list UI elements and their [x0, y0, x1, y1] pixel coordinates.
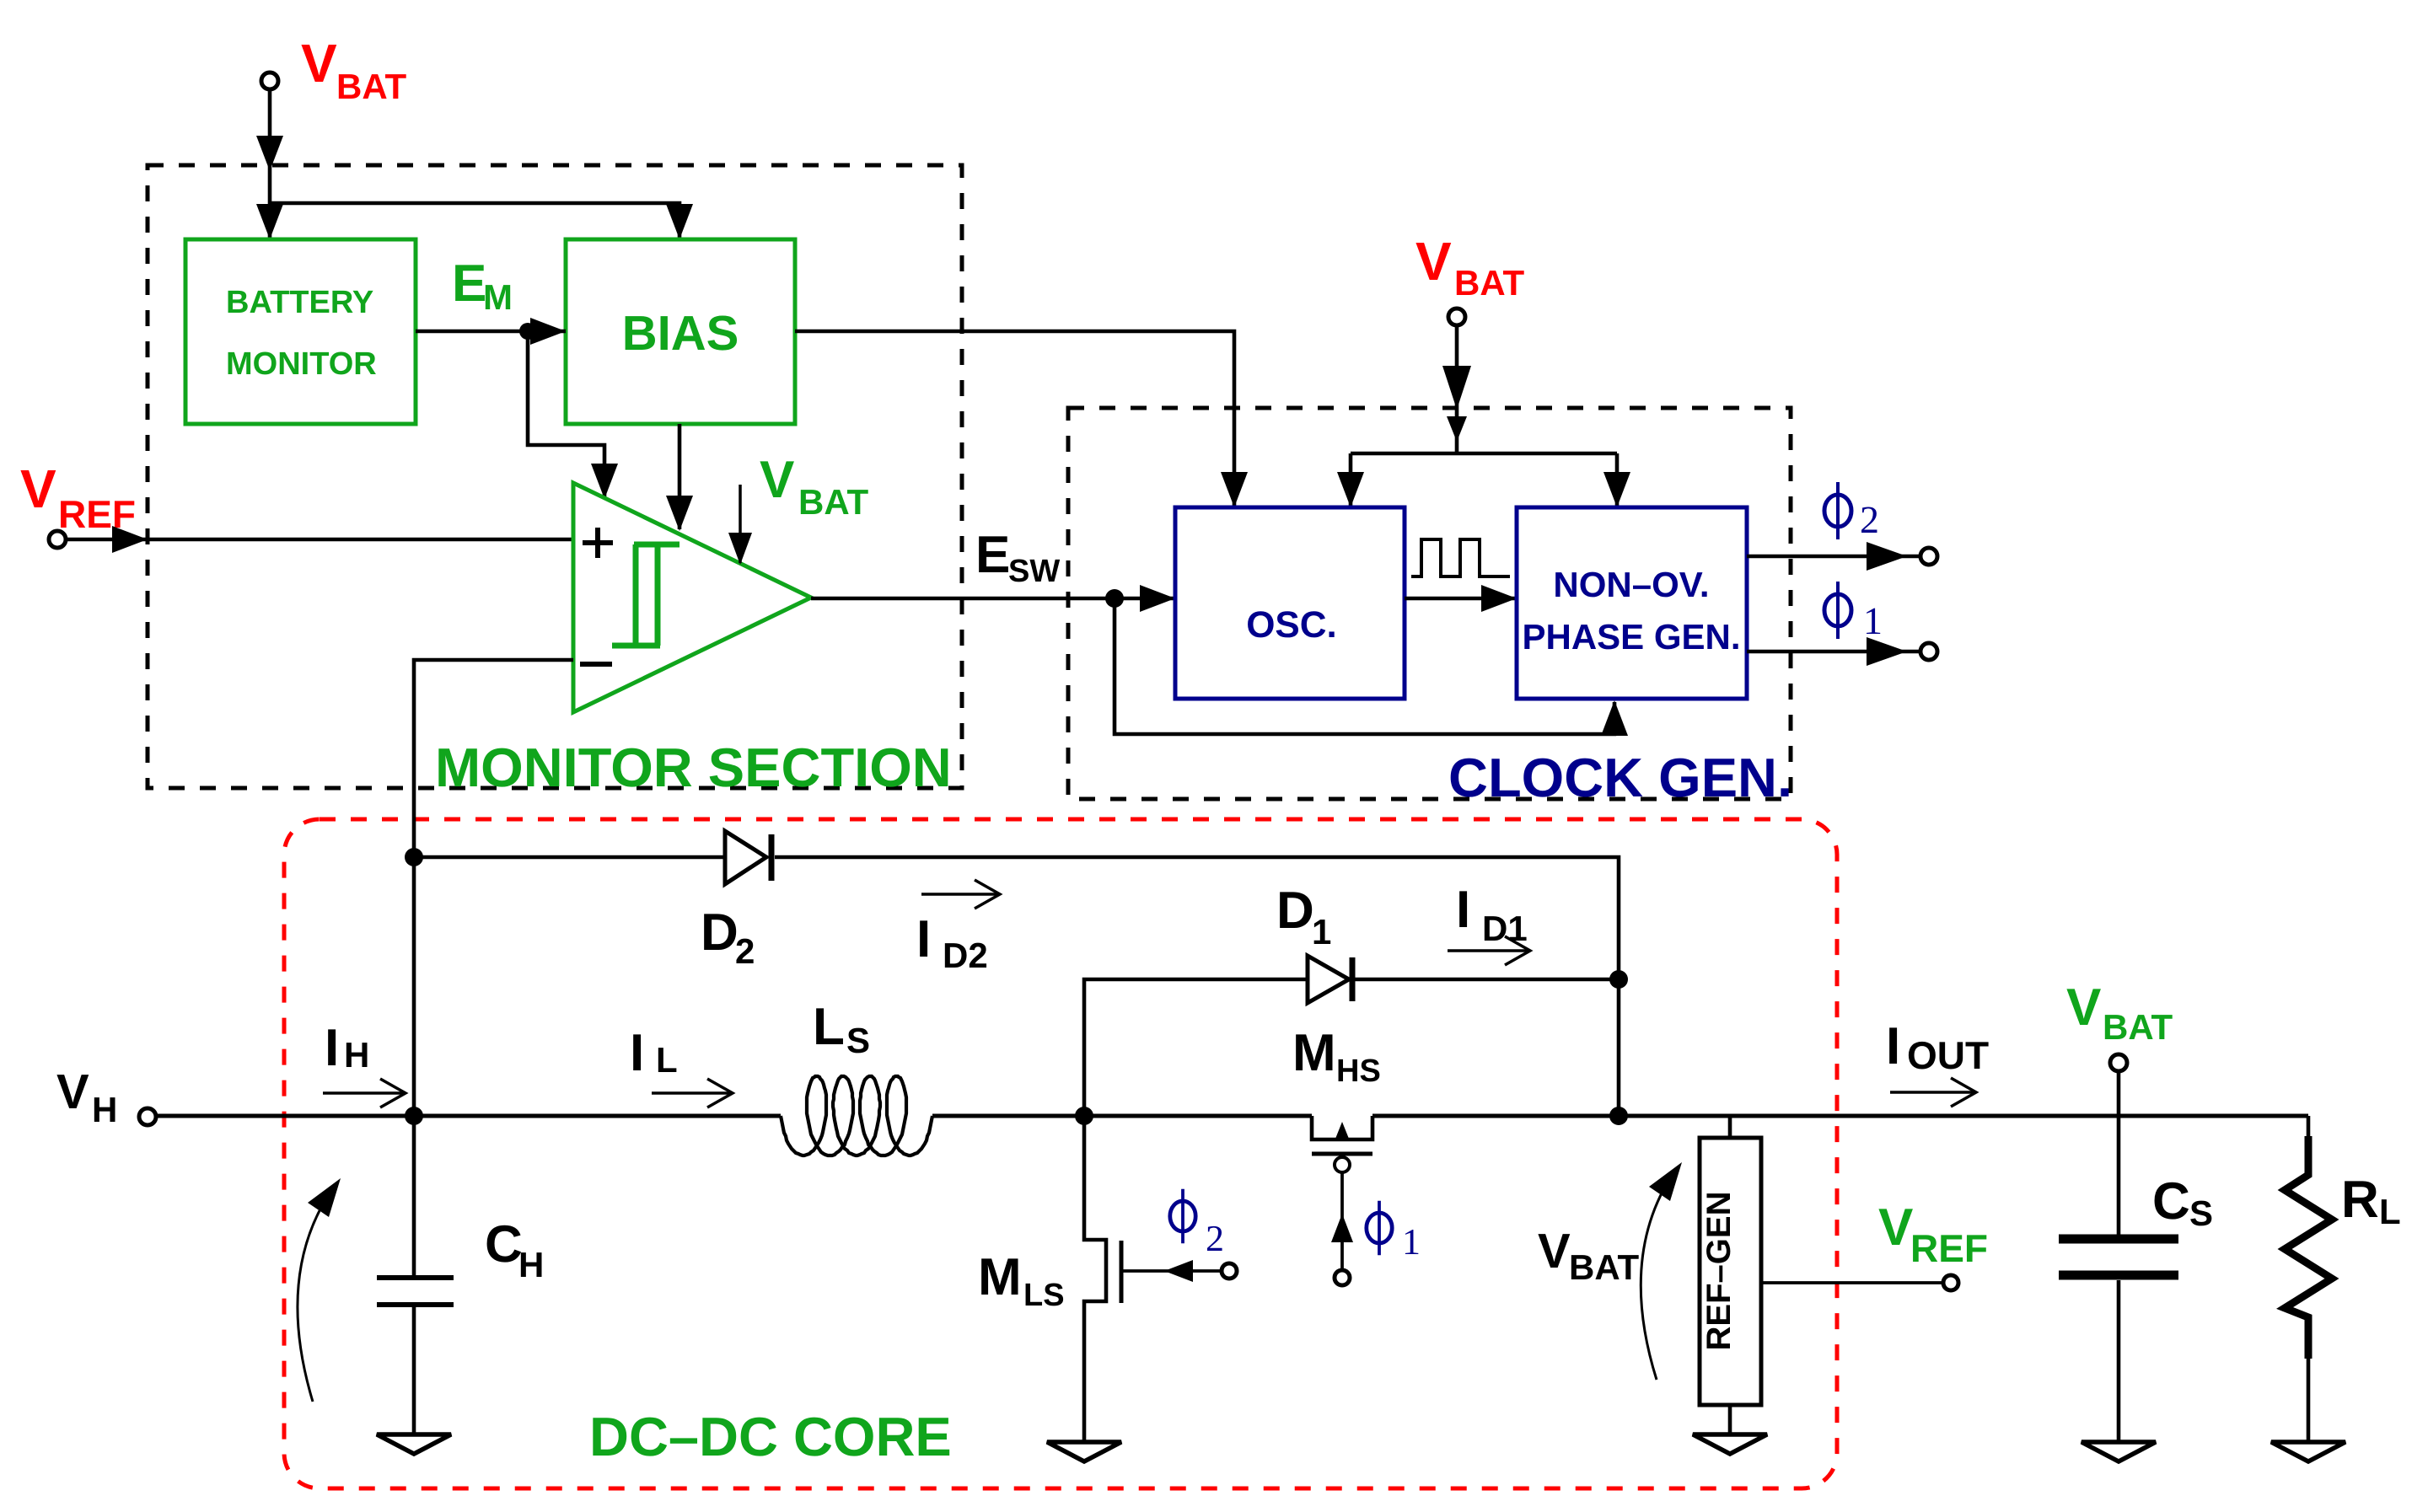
svg-text:H: H — [518, 1245, 544, 1284]
svg-text:2: 2 — [1860, 498, 1879, 541]
svg-text:M: M — [1292, 1024, 1336, 1082]
current arrow I_OUT — [1890, 1091, 1976, 1094]
svg-text:L: L — [2379, 1192, 2401, 1231]
svg-text:V: V — [20, 458, 56, 519]
svg-text:V: V — [1538, 1224, 1571, 1279]
wire BIAS right to OSC — [795, 331, 1234, 506]
svg-text:I: I — [630, 1024, 644, 1082]
wire E_SW comparator output to OSC — [811, 597, 1174, 601]
wire inductor to M_HS — [932, 1114, 1312, 1118]
hysteresis symbol — [612, 544, 680, 646]
wire M_HS to output node — [1372, 1114, 2308, 1118]
svg-text:V: V — [1878, 1198, 1913, 1257]
wire V_BAT arrow into comparator — [739, 485, 742, 563]
net V_REF input terminal — [49, 531, 66, 548]
svg-text:S: S — [2189, 1193, 2213, 1233]
minus input marker — [580, 662, 612, 667]
current arrow I_D2 — [921, 893, 1000, 896]
svg-text:BATTERY: BATTERY — [226, 285, 373, 320]
svg-text:PHASE GEN.: PHASE GEN. — [1522, 617, 1740, 657]
svg-text:M: M — [483, 277, 513, 317]
transistor M_HS — [1312, 1116, 1372, 1139]
svg-text:BAT: BAT — [336, 67, 407, 106]
wire BIAS bottom to comparator — [678, 424, 682, 529]
svg-text:V: V — [2066, 979, 2101, 1037]
block OSC — [1175, 507, 1405, 699]
svg-text:M: M — [978, 1248, 1022, 1306]
svg-text:LS: LS — [1023, 1278, 1065, 1313]
op-amp comparator U1 (hysteresis) — [573, 483, 811, 712]
wire D2 branch top — [414, 855, 725, 860]
ground M_LS — [1047, 1442, 1121, 1461]
label phi2 — [1824, 495, 1851, 527]
wire V_REF output — [1761, 1281, 1942, 1284]
node M_LS drain — [1075, 1107, 1093, 1125]
square wave symbol — [1411, 539, 1510, 576]
wire D1 node down to output rail — [1617, 979, 1621, 1116]
svg-text:OUT: OUT — [1907, 1033, 1989, 1077]
svg-text:1: 1 — [1863, 599, 1883, 642]
svg-text:BAT: BAT — [1569, 1247, 1640, 1287]
DC-DC core red dashed box — [284, 819, 1837, 1488]
svg-text:E: E — [452, 255, 486, 313]
wire E_M battery monitor to BIAS — [416, 330, 566, 334]
ground C_S — [2082, 1442, 2156, 1461]
svg-text:L: L — [656, 1040, 678, 1080]
svg-text:I: I — [916, 910, 931, 968]
svg-text:V: V — [760, 451, 794, 509]
wire V_REF to comparator — [66, 538, 573, 542]
svg-text:2: 2 — [735, 931, 755, 971]
inductor L_S — [781, 1076, 932, 1155]
net V_BAT terminal clock gen — [1448, 308, 1465, 325]
svg-text:1: 1 — [1312, 912, 1331, 952]
svg-text:L: L — [813, 998, 845, 1056]
net V_BAT terminal C_S — [2110, 1054, 2127, 1071]
svg-text:H: H — [344, 1035, 369, 1075]
capacitor C_H — [412, 1116, 416, 1275]
svg-text:I: I — [1456, 881, 1470, 939]
svg-text:R: R — [2341, 1171, 2379, 1229]
clock gen dashed box — [1068, 408, 1791, 799]
ground REF-GEN — [1693, 1434, 1767, 1454]
resistor R_L — [2307, 1116, 2311, 1136]
monitor section dashed box — [148, 165, 962, 788]
block NON-OV PHASE GEN — [1517, 507, 1747, 699]
diode D2 — [725, 831, 766, 884]
block BATTERY MONITOR — [185, 239, 416, 424]
svg-text:MONITOR: MONITOR — [226, 346, 377, 382]
svg-text:D: D — [701, 903, 739, 962]
svg-text:V: V — [1415, 231, 1452, 292]
wire E_M branch down to comparator plus input — [528, 331, 604, 497]
svg-text:MONITOR SECTION: MONITOR SECTION — [435, 737, 952, 798]
block BIAS — [566, 239, 795, 424]
net V_H input terminal — [139, 1108, 156, 1125]
wire V_BAT branch to BIAS — [270, 203, 680, 239]
svg-text:CLOCK GEN.: CLOCK GEN. — [1448, 747, 1792, 808]
current arrow I_D1 — [1448, 949, 1530, 952]
node V_H junction — [405, 1107, 423, 1125]
transistor M_LS — [1084, 1116, 1106, 1442]
wire D1 branch — [1084, 979, 1308, 1116]
svg-text:BAT: BAT — [798, 482, 869, 522]
charge arc arrow REF-GEN — [1641, 1172, 1674, 1380]
wire main rail V_H to inductor — [156, 1114, 781, 1118]
svg-text:HS: HS — [1336, 1054, 1381, 1089]
ground R_L — [2271, 1442, 2345, 1461]
diode D1 — [1308, 956, 1349, 1003]
net V_BAT terminal top-left — [261, 72, 278, 89]
svg-text:BAT: BAT — [2103, 1007, 2173, 1047]
node D1 cathode junction — [1609, 970, 1628, 989]
svg-text:D: D — [1276, 882, 1314, 940]
svg-text:NON–OV.: NON–OV. — [1553, 565, 1709, 604]
wire V_BAT branch to OSC and phase gen — [1351, 452, 1617, 456]
svg-text:BAT: BAT — [1454, 263, 1525, 303]
svg-text:E: E — [975, 526, 1010, 584]
svg-text:I: I — [325, 1019, 339, 1077]
svg-text:S: S — [846, 1021, 870, 1060]
svg-text:DC–DC CORE: DC–DC CORE — [589, 1406, 952, 1467]
svg-text:REF: REF — [58, 492, 136, 536]
label phi1 gate — [1367, 1213, 1392, 1243]
block REF-GEN — [1728, 1116, 1732, 1138]
wire V_BAT down into monitor section — [268, 89, 272, 239]
svg-text:REF–GEN: REF–GEN — [1700, 1192, 1738, 1351]
svg-text:SW: SW — [1008, 554, 1060, 589]
current arrow I_H — [323, 1091, 406, 1095]
label phi2 gate — [1170, 1201, 1195, 1231]
wire V_BAT into clock gen — [1455, 325, 1459, 453]
ground C_H — [377, 1434, 451, 1454]
svg-text:C: C — [2152, 1172, 2190, 1231]
svg-text:D2: D2 — [943, 936, 988, 975]
svg-text:C: C — [485, 1215, 523, 1273]
svg-text:BIAS: BIAS — [622, 306, 739, 361]
svg-text:D1: D1 — [1482, 909, 1528, 948]
node output rail D1 — [1609, 1107, 1628, 1125]
svg-text:2: 2 — [1206, 1218, 1224, 1259]
wire phi2 output — [1747, 555, 1920, 559]
svg-text:OSC.: OSC. — [1246, 604, 1337, 646]
wire phi1 gate lead — [1340, 1172, 1344, 1269]
svg-text:REF: REF — [1910, 1226, 1988, 1270]
svg-text:V: V — [56, 1064, 89, 1119]
plus input marker — [583, 528, 613, 558]
svg-text:I: I — [1886, 1017, 1900, 1075]
current arrow I_L — [652, 1091, 733, 1095]
label phi1 — [1824, 594, 1851, 626]
charge arc arrow C_H — [298, 1187, 334, 1402]
svg-text:1: 1 — [1402, 1221, 1421, 1263]
wire feedback E_SW to phase gen bottom — [1115, 598, 1614, 734]
wire phi2 gate lead — [1121, 1269, 1222, 1273]
svg-text:V: V — [301, 33, 337, 94]
svg-text:H: H — [92, 1090, 117, 1129]
capacitor C_S — [2117, 1071, 2121, 1235]
wire comparator minus input from V_H node — [414, 660, 573, 1116]
wire phi1 output — [1747, 650, 1920, 654]
wire OSC to phase gen — [1405, 597, 1515, 601]
